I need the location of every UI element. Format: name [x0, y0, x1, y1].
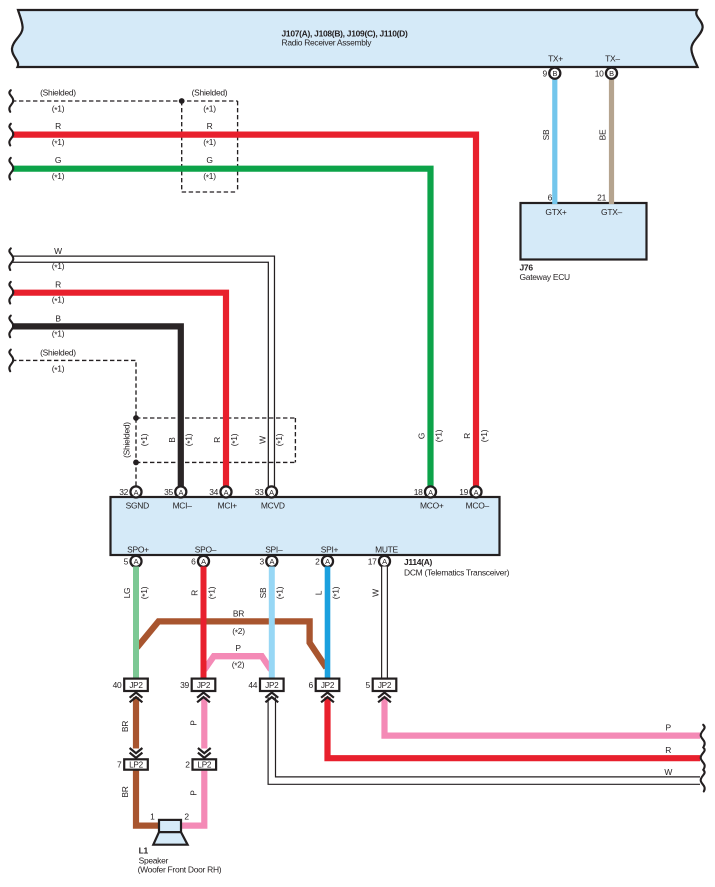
svg-text:SPO–: SPO– [195, 545, 217, 555]
svg-text:A: A [269, 488, 274, 497]
svg-text:6: 6 [191, 557, 196, 567]
svg-text:19: 19 [459, 487, 468, 497]
svg-text:R: R [462, 433, 472, 439]
svg-text:B: B [552, 69, 557, 78]
svg-text:(*1): (*1) [274, 433, 285, 446]
svg-text:W: W [371, 589, 381, 597]
svg-text:18: 18 [414, 487, 423, 497]
svg-text:R: R [665, 745, 671, 755]
svg-text:BE: BE [598, 129, 608, 140]
svg-text:JP2: JP2 [378, 681, 392, 690]
svg-text:(*1): (*1) [203, 171, 216, 182]
svg-text:7: 7 [117, 760, 122, 770]
svg-text:GTX–: GTX– [601, 207, 623, 217]
svg-text:Gateway ECU: Gateway ECU [520, 272, 571, 282]
svg-text:10: 10 [595, 68, 604, 78]
svg-text:TX+: TX+ [548, 54, 563, 64]
svg-text:MCO–: MCO– [466, 501, 490, 511]
svg-text:G: G [55, 155, 61, 165]
svg-text:A: A [134, 557, 139, 566]
svg-text:G: G [417, 433, 427, 439]
svg-text:B: B [167, 437, 177, 443]
svg-text:(*1): (*1) [330, 586, 341, 599]
svg-text:LP2: LP2 [197, 761, 211, 770]
svg-text:SGND: SGND [126, 501, 149, 511]
svg-text:MCI–: MCI– [173, 501, 193, 511]
svg-text:(*1): (*1) [139, 433, 150, 446]
svg-text:BR: BR [120, 721, 130, 732]
svg-text:(*1): (*1) [479, 429, 490, 442]
svg-text:(*1): (*1) [433, 429, 444, 442]
svg-text:B: B [55, 313, 61, 323]
svg-text:6: 6 [548, 193, 553, 203]
svg-text:P: P [189, 720, 199, 726]
svg-text:(*1): (*1) [52, 328, 65, 339]
svg-text:5: 5 [365, 680, 370, 690]
svg-text:BR: BR [233, 609, 244, 619]
svg-text:MUTE: MUTE [375, 545, 398, 555]
svg-text:P: P [666, 722, 672, 732]
svg-text:(*2): (*2) [232, 626, 245, 637]
svg-text:TX–: TX– [605, 54, 620, 64]
svg-text:(*1): (*1) [52, 104, 65, 115]
svg-text:SB: SB [258, 587, 268, 598]
svg-text:A: A [428, 488, 433, 497]
svg-text:A: A [382, 557, 387, 566]
svg-text:JP2: JP2 [129, 681, 143, 690]
svg-text:(*1): (*1) [139, 586, 150, 599]
svg-text:R: R [207, 121, 213, 131]
svg-text:R: R [55, 121, 61, 131]
svg-text:A: A [325, 557, 330, 566]
svg-text:(*1): (*1) [229, 433, 240, 446]
svg-text:DCM (Telematics Transceiver): DCM (Telematics Transceiver) [404, 567, 510, 577]
svg-text:(*2): (*2) [232, 659, 245, 670]
svg-text:MCO+: MCO+ [420, 501, 444, 511]
svg-text:21: 21 [597, 193, 606, 203]
svg-text:(Woofer Front Door RH): (Woofer Front Door RH) [138, 865, 222, 875]
svg-text:JP2: JP2 [321, 681, 335, 690]
svg-text:(*1): (*1) [206, 586, 217, 599]
svg-text:9: 9 [542, 68, 547, 78]
svg-text:J76: J76 [520, 263, 534, 273]
svg-text:P: P [235, 643, 241, 653]
svg-text:SPI–: SPI– [265, 545, 283, 555]
svg-text:33: 33 [255, 487, 264, 497]
svg-text:SB: SB [541, 129, 551, 140]
svg-text:JP2: JP2 [265, 681, 279, 690]
svg-text:6: 6 [308, 680, 313, 690]
svg-text:R: R [55, 280, 61, 290]
svg-text:5: 5 [124, 557, 129, 567]
svg-text:Radio Receiver Assembly: Radio Receiver Assembly [282, 37, 373, 47]
svg-text:B: B [609, 69, 614, 78]
svg-text:LP2: LP2 [129, 761, 143, 770]
svg-text:40: 40 [113, 680, 122, 690]
svg-text:A: A [269, 557, 274, 566]
svg-text:G: G [206, 155, 212, 165]
svg-text:R: R [212, 437, 222, 443]
svg-text:A: A [224, 488, 229, 497]
svg-text:W: W [257, 436, 267, 444]
svg-text:1: 1 [150, 812, 155, 822]
svg-text:39: 39 [180, 680, 189, 690]
svg-text:A: A [474, 488, 479, 497]
svg-text:3: 3 [259, 557, 264, 567]
svg-text:SPI+: SPI+ [321, 545, 339, 555]
svg-text:(Shielded): (Shielded) [192, 88, 228, 98]
svg-text:(Shielded): (Shielded) [40, 88, 76, 98]
svg-text:(*1): (*1) [52, 137, 65, 148]
svg-text:MCVD: MCVD [261, 501, 285, 511]
svg-text:2: 2 [184, 812, 189, 822]
svg-text:(Shielded): (Shielded) [122, 422, 132, 458]
svg-text:L1: L1 [139, 846, 149, 856]
svg-text:R: R [190, 590, 200, 596]
svg-text:32: 32 [119, 487, 128, 497]
svg-text:MCI+: MCI+ [218, 501, 238, 511]
svg-text:(Shielded): (Shielded) [40, 347, 76, 357]
svg-text:J114(A): J114(A) [404, 557, 433, 567]
svg-text:LG: LG [122, 588, 132, 599]
svg-text:2: 2 [315, 557, 320, 567]
svg-text:(*1): (*1) [275, 586, 286, 599]
svg-text:34: 34 [209, 487, 218, 497]
svg-text:JP2: JP2 [197, 681, 211, 690]
svg-text:(*1): (*1) [184, 433, 195, 446]
svg-text:W: W [54, 246, 62, 256]
svg-text:44: 44 [248, 680, 257, 690]
svg-text:P: P [189, 790, 199, 796]
svg-text:BR: BR [120, 786, 130, 797]
svg-text:2: 2 [185, 760, 190, 770]
svg-text:(*1): (*1) [52, 261, 65, 272]
svg-text:(*1): (*1) [52, 171, 65, 182]
svg-text:A: A [178, 488, 183, 497]
svg-text:(*1): (*1) [203, 104, 216, 115]
svg-text:GTX+: GTX+ [545, 207, 567, 217]
svg-text:(*1): (*1) [52, 364, 65, 375]
svg-text:(*1): (*1) [52, 295, 65, 306]
svg-text:35: 35 [164, 487, 173, 497]
svg-text:17: 17 [368, 557, 377, 567]
svg-text:SPO+: SPO+ [127, 545, 149, 555]
svg-text:W: W [664, 767, 672, 777]
svg-text:A: A [134, 488, 139, 497]
svg-text:(*1): (*1) [203, 137, 216, 148]
svg-text:A: A [201, 557, 206, 566]
svg-text:L: L [314, 590, 324, 595]
